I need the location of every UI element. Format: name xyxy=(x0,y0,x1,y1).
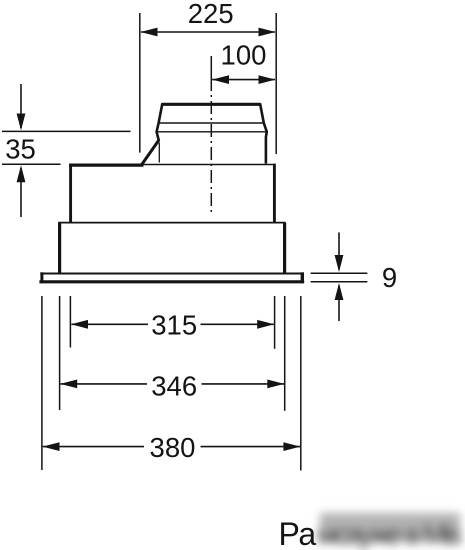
dim 9 up arrow xyxy=(338,286,340,322)
centerline dash-dot xyxy=(210,95,212,215)
duct collar flare inner line xyxy=(158,143,160,163)
svg-text:346: 346 xyxy=(151,371,197,402)
dim 315 extension line left xyxy=(69,296,71,348)
dim 380 arrow line right segment xyxy=(201,446,301,448)
dim 315 arrow line left segment xyxy=(72,323,149,325)
svg-text:Pa: Pa xyxy=(279,516,317,550)
dim 225 left arrowhead xyxy=(141,28,158,37)
dim 380 extension line right xyxy=(300,296,302,471)
hood step line xyxy=(58,222,285,224)
svg-text:315: 315 xyxy=(151,310,197,341)
dim 346 arrow line right segment xyxy=(202,383,285,385)
dim 315 extension line right xyxy=(274,296,276,349)
duct collar left edge xyxy=(157,103,163,140)
dim 100 right arrowhead xyxy=(259,75,276,84)
duct collar right edge xyxy=(260,103,267,163)
dim 315 arrow line right segment xyxy=(201,323,274,325)
dim 9 lower reference line xyxy=(311,281,368,283)
duct collar top edge xyxy=(162,103,260,106)
dim 35 upper reference line xyxy=(2,130,131,132)
dim 225 extension line right xyxy=(275,13,277,154)
mounting flange bottom edge xyxy=(39,280,304,283)
hood lower box right edge xyxy=(283,223,286,273)
dim 225 right arrowhead xyxy=(259,28,276,37)
watermark blurred remainder xyxy=(317,513,462,550)
dim 100 arrow line xyxy=(212,79,275,81)
svg-text:100: 100 xyxy=(221,40,267,71)
dim 35 down arrow xyxy=(20,84,22,128)
hood top surface thick segment xyxy=(69,164,143,167)
dim 346 extension line right xyxy=(284,296,286,411)
mounting flange left end cap xyxy=(40,272,43,283)
duct collar upper seam xyxy=(158,122,263,124)
svg-text:мсаyже в Мis: мсаyже в Мis xyxy=(317,519,462,550)
dim 225 extension line left xyxy=(139,13,141,153)
svg-text:225: 225 xyxy=(188,0,234,29)
duct collar lower seam xyxy=(156,131,266,133)
dim 346 arrow line left segment xyxy=(61,383,148,385)
mounting flange right end cap xyxy=(301,272,304,283)
svg-text:35: 35 xyxy=(5,133,36,164)
dim 9 down arrow xyxy=(338,232,340,269)
mounting flange top edge xyxy=(40,273,303,275)
dim 35 up arrow xyxy=(20,168,22,217)
dim 225 arrow line xyxy=(141,31,275,33)
hood upper box left edge xyxy=(69,164,72,223)
hood upper box right edge xyxy=(273,164,276,223)
dim 380 arrow line left segment xyxy=(43,446,144,448)
svg-text:380: 380 xyxy=(150,432,196,463)
svg-text:9: 9 xyxy=(382,262,397,293)
dim 346 extension line left xyxy=(59,296,61,410)
dim 9 upper reference line xyxy=(311,272,368,274)
duct collar flare diagonal xyxy=(141,140,159,166)
dim 35 lower reference line xyxy=(2,163,61,165)
hood lower box left edge xyxy=(58,223,61,273)
dim 100 left arrowhead xyxy=(212,75,229,84)
dim 380 extension line left xyxy=(41,296,43,470)
hood top surface thin segment xyxy=(144,164,275,166)
centerline solid upper segment xyxy=(210,56,212,91)
